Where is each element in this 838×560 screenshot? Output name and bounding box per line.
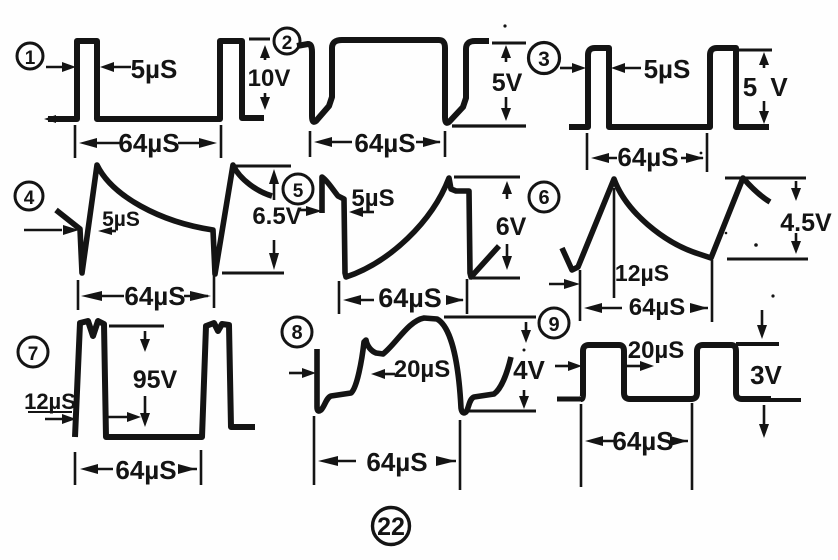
svg-text:12µS: 12µS — [615, 260, 669, 286]
svg-text:5: 5 — [743, 72, 757, 102]
svg-text:64µS: 64µS — [378, 283, 442, 313]
svg-text:4.5V: 4.5V — [780, 209, 832, 237]
svg-text:64µS: 64µS — [115, 455, 176, 485]
svg-text:64µS: 64µS — [354, 128, 415, 158]
svg-text:6V: 6V — [496, 213, 527, 241]
svg-text:6: 6 — [538, 187, 549, 209]
svg-text:64µS: 64µS — [366, 447, 427, 477]
svg-text:20µS: 20µS — [628, 337, 685, 364]
svg-text:7: 7 — [28, 344, 39, 365]
svg-text:95V: 95V — [133, 366, 178, 394]
svg-text:1: 1 — [25, 48, 36, 69]
svg-text:64µS: 64µS — [612, 426, 673, 456]
svg-text:3V: 3V — [750, 360, 782, 390]
svg-text:5µS: 5µS — [131, 54, 178, 84]
svg-text:4V: 4V — [513, 355, 545, 385]
svg-text:3: 3 — [538, 48, 550, 71]
svg-text:8: 8 — [291, 322, 302, 344]
svg-text:5µS: 5µS — [102, 208, 140, 231]
svg-text:22: 22 — [377, 513, 405, 541]
svg-text:5µS: 5µS — [351, 185, 394, 212]
svg-text:64µS: 64µS — [118, 128, 179, 158]
svg-text:6.5V: 6.5V — [252, 203, 301, 230]
svg-text:10V: 10V — [248, 65, 291, 92]
svg-text:64µS: 64µS — [629, 294, 686, 321]
svg-text:2: 2 — [282, 33, 293, 54]
svg-text:9: 9 — [548, 314, 559, 336]
svg-text:5µS: 5µS — [644, 54, 691, 84]
svg-text:20µS: 20µS — [394, 356, 451, 383]
svg-text:64µS: 64µS — [124, 281, 185, 311]
svg-text:64µS: 64µS — [617, 142, 678, 172]
svg-text:5V: 5V — [492, 69, 523, 97]
svg-text:12µS: 12µS — [24, 389, 76, 414]
svg-text:4: 4 — [24, 188, 35, 209]
svg-text:5: 5 — [293, 181, 304, 202]
svg-text:V: V — [770, 72, 788, 102]
